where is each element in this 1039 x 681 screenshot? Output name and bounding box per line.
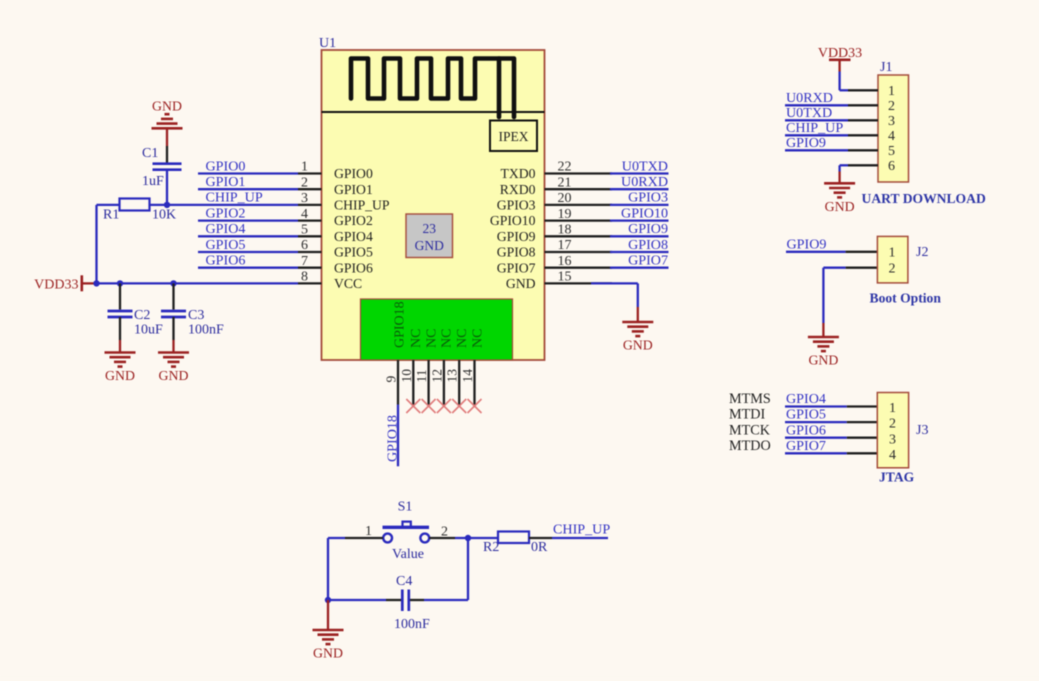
svg-text:3: 3 xyxy=(888,114,895,129)
svg-text:GPIO9: GPIO9 xyxy=(497,229,536,244)
svg-text:VCC: VCC xyxy=(334,276,362,291)
svg-text:C3: C3 xyxy=(188,308,204,323)
wire GPIO2 row xyxy=(198,219,298,221)
svg-text:21: 21 xyxy=(558,175,572,190)
switch S1 xyxy=(383,522,430,543)
C3 bottom lead xyxy=(172,317,174,340)
svg-text:1: 1 xyxy=(889,246,896,261)
svg-text:GPIO6: GPIO6 xyxy=(334,260,373,275)
U1 pin 16 stub xyxy=(545,267,613,269)
svg-text:13: 13 xyxy=(445,369,460,383)
U1 pin 6 stub xyxy=(298,251,322,253)
svg-text:GPIO18: GPIO18 xyxy=(385,415,401,462)
svg-text:4: 4 xyxy=(889,448,896,463)
no-connect X on pin 11 xyxy=(422,399,436,413)
svg-text:10uF: 10uF xyxy=(134,323,163,338)
resistor R2 xyxy=(498,532,529,544)
svg-text:6: 6 xyxy=(888,159,895,174)
svg-text:GPIO5: GPIO5 xyxy=(206,237,246,253)
wire GPIO7 row xyxy=(610,267,669,269)
wire U0TXD row xyxy=(610,172,669,174)
capacitor C4 xyxy=(402,590,409,612)
no-connect X on pin 12 xyxy=(437,399,451,413)
svg-text:J2: J2 xyxy=(916,245,928,260)
J3 pin 4 stub xyxy=(847,452,878,454)
svg-text:8: 8 xyxy=(301,270,308,285)
svg-text:GPIO1: GPIO1 xyxy=(206,174,246,190)
svg-text:C2: C2 xyxy=(134,308,150,323)
U1 pin 14 stub xyxy=(473,360,475,406)
svg-text:GPIO3: GPIO3 xyxy=(497,198,536,213)
svg-text:19: 19 xyxy=(558,207,572,222)
svg-text:7: 7 xyxy=(301,254,308,269)
svg-text:VDD33: VDD33 xyxy=(34,277,78,292)
wire GPIO4 to J3 xyxy=(785,405,847,407)
svg-text:5: 5 xyxy=(888,144,895,159)
wire GPIO10 row xyxy=(610,219,669,221)
wire GPIO0 row xyxy=(198,172,298,174)
svg-text:GPIO7: GPIO7 xyxy=(497,260,536,275)
svg-text:GPIO6: GPIO6 xyxy=(786,422,826,438)
wire VDD33 rail xyxy=(97,282,299,284)
svg-text:CHIP_UP: CHIP_UP xyxy=(553,522,610,538)
svg-text:NC: NC xyxy=(440,329,455,348)
svg-text:R2: R2 xyxy=(483,540,499,555)
svg-text:CHIP_UP: CHIP_UP xyxy=(206,190,263,206)
U1 pin 15 stub xyxy=(545,282,613,284)
no-connect X on pin 14 xyxy=(468,399,482,413)
svg-text:GND: GND xyxy=(105,368,135,383)
svg-text:GPIO9: GPIO9 xyxy=(787,236,827,252)
capacitor C1 xyxy=(153,164,182,170)
J2 pin 1 stub xyxy=(846,251,878,253)
svg-text:3: 3 xyxy=(301,191,308,206)
wire pin15 to ground xyxy=(591,282,638,284)
U1 pin 8 stub xyxy=(298,282,322,284)
svg-text:GND: GND xyxy=(808,353,838,368)
svg-text:GPIO4: GPIO4 xyxy=(786,391,826,407)
svg-text:NC: NC xyxy=(424,329,439,348)
svg-text:GND: GND xyxy=(313,646,343,661)
U1 pin 5 stub xyxy=(298,235,322,237)
svg-text:C4: C4 xyxy=(396,574,412,589)
svg-text:GPIO9: GPIO9 xyxy=(786,135,826,151)
svg-text:GPIO5: GPIO5 xyxy=(334,245,373,260)
U1 pin 18 stub xyxy=(545,235,613,237)
wire J1 pin6 to gnd xyxy=(840,164,848,166)
U1 pin 13 stub xyxy=(458,360,460,406)
svg-text:GPIO8: GPIO8 xyxy=(497,245,536,260)
svg-text:U0TXD: U0TXD xyxy=(786,105,832,121)
svg-text:GPIO10: GPIO10 xyxy=(490,213,536,228)
svg-text:2: 2 xyxy=(301,175,308,190)
C3 top lead xyxy=(172,283,174,309)
capacitor C3 xyxy=(161,311,186,317)
svg-text:GPIO10: GPIO10 xyxy=(621,205,668,221)
svg-text:IPEX: IPEX xyxy=(499,129,529,144)
no-connect X on pin 10 xyxy=(406,399,420,413)
shield/NC green block of U1 xyxy=(361,299,513,360)
J3 pin 3 stub xyxy=(847,437,878,439)
power stub C2 gnd xyxy=(119,340,121,353)
U1 pin 17 stub xyxy=(545,251,613,253)
wire gnd to C1 xyxy=(166,146,168,163)
svg-text:1: 1 xyxy=(889,401,896,416)
C4 right stub xyxy=(410,599,424,601)
junction C3 xyxy=(170,280,176,286)
svg-text:J1: J1 xyxy=(880,60,892,75)
svg-text:NC: NC xyxy=(409,329,424,348)
power stub S1 gnd xyxy=(327,600,329,630)
svg-text:GND: GND xyxy=(152,99,182,114)
J1 pin 4 stub xyxy=(848,134,878,136)
svg-text:9: 9 xyxy=(384,376,399,383)
svg-text:16: 16 xyxy=(558,254,572,269)
antenna feed stub xyxy=(497,59,502,118)
connector J2 body xyxy=(877,236,908,283)
svg-text:GPIO0: GPIO0 xyxy=(334,166,373,181)
wire C4 left xyxy=(328,599,386,601)
svg-text:U0RXD: U0RXD xyxy=(621,174,668,190)
svg-text:RXD0: RXD0 xyxy=(500,182,536,197)
C2 top lead xyxy=(119,283,121,309)
wire GPIO4 row xyxy=(198,235,298,237)
wire pin9 down xyxy=(397,405,399,467)
junction C2 xyxy=(117,280,123,286)
U1 pin 4 stub xyxy=(298,219,322,221)
svg-text:1uF: 1uF xyxy=(142,174,164,189)
svg-text:U0RXD: U0RXD xyxy=(786,90,833,106)
svg-text:17: 17 xyxy=(558,238,572,253)
svg-text:1: 1 xyxy=(301,160,308,175)
S1 pin1 stub xyxy=(345,537,383,539)
svg-text:18: 18 xyxy=(558,223,572,238)
svg-text:GND: GND xyxy=(159,368,189,383)
svg-text:MTDI: MTDI xyxy=(729,407,766,423)
S1 pin2 stub xyxy=(429,537,455,539)
junction C4/gnd xyxy=(325,597,331,603)
svg-text:GND: GND xyxy=(506,276,536,291)
ground above C1 xyxy=(152,99,183,129)
connector J3 body xyxy=(877,393,908,468)
J1 pin 6 stub xyxy=(848,164,878,166)
svg-text:GPIO6: GPIO6 xyxy=(206,253,246,269)
C2 bottom lead xyxy=(119,317,121,340)
svg-text:2: 2 xyxy=(889,262,896,277)
svg-text:0R: 0R xyxy=(531,540,548,555)
svg-text:5: 5 xyxy=(301,223,308,238)
power stub above C1 xyxy=(166,128,168,146)
svg-text:GND: GND xyxy=(825,199,855,214)
svg-text:CHIP_UP: CHIP_UP xyxy=(786,120,843,136)
wire GPIO9 row xyxy=(610,235,669,237)
svg-text:GPIO7: GPIO7 xyxy=(786,438,826,454)
U1 pin 21 stub xyxy=(545,188,613,190)
svg-text:U1: U1 xyxy=(319,36,336,51)
svg-text:TXD0: TXD0 xyxy=(501,166,536,181)
junction VDD33/R1 xyxy=(93,280,99,286)
U1 pin 7 stub xyxy=(298,267,322,269)
svg-text:GPIO7: GPIO7 xyxy=(628,253,668,269)
svg-text:14: 14 xyxy=(460,369,475,383)
svg-text:GPIO2: GPIO2 xyxy=(206,205,246,221)
power stub J1 gnd xyxy=(838,172,840,184)
junction S1/C4 xyxy=(465,535,471,541)
svg-text:2: 2 xyxy=(889,417,896,432)
wire GPIO6 row xyxy=(198,267,298,269)
svg-text:11: 11 xyxy=(414,370,429,383)
svg-text:MTCK: MTCK xyxy=(729,422,771,438)
wire U0RXD to J1 xyxy=(785,104,848,106)
wire S1 to R2 xyxy=(455,537,498,539)
svg-text:GND: GND xyxy=(415,238,444,253)
power port VDD33 at J1 xyxy=(818,46,862,71)
svg-text:MTDO: MTDO xyxy=(729,438,771,454)
wire GPIO8 row xyxy=(610,251,669,253)
IC module U1 body xyxy=(322,50,545,360)
wire GPIO6 to J3 xyxy=(785,437,847,439)
wire GPIO9 to J1 xyxy=(785,149,848,151)
svg-text:GPIO0: GPIO0 xyxy=(206,158,246,174)
svg-text:15: 15 xyxy=(558,270,572,285)
svg-text:R1: R1 xyxy=(103,208,119,223)
wire GPIO5 row xyxy=(198,251,298,253)
svg-text:NC: NC xyxy=(470,329,485,348)
svg-text:GPIO8: GPIO8 xyxy=(628,237,668,253)
svg-text:GPIO9: GPIO9 xyxy=(628,221,668,237)
svg-text:NC: NC xyxy=(455,329,470,348)
R2 right stub xyxy=(529,537,552,539)
U1 pin 19 stub xyxy=(545,219,613,221)
wire GPIO1 row xyxy=(198,188,298,190)
wire R2 to CHIP_UP xyxy=(552,537,608,539)
svg-text:6: 6 xyxy=(301,238,308,253)
svg-text:Value: Value xyxy=(392,547,424,562)
IPEX connector box xyxy=(490,121,537,152)
U1 pin 20 stub xyxy=(545,204,613,206)
wire S1 left branch down xyxy=(327,538,329,600)
svg-text:23: 23 xyxy=(423,221,437,236)
wire C4 right xyxy=(424,599,468,601)
svg-text:20: 20 xyxy=(558,191,572,206)
svg-text:4: 4 xyxy=(888,129,895,144)
wire right branch down xyxy=(467,538,469,600)
J2 pin 2 stub xyxy=(846,267,878,269)
no-connect X on pin 13 xyxy=(452,399,466,413)
antenna divider line xyxy=(322,111,545,113)
U1 pin 11 stub xyxy=(427,360,429,406)
U1 pin 2 stub xyxy=(298,188,322,190)
svg-text:10K: 10K xyxy=(152,208,176,223)
svg-text:3: 3 xyxy=(889,432,896,447)
svg-text:GND: GND xyxy=(623,338,653,353)
svg-text:1: 1 xyxy=(365,524,372,539)
svg-text:S1: S1 xyxy=(398,500,413,515)
svg-text:1: 1 xyxy=(888,84,895,99)
ground below J1 xyxy=(824,183,855,214)
J3 pin 2 stub xyxy=(847,421,878,423)
power port VDD33 left xyxy=(34,275,96,292)
J1 pin 2 stub xyxy=(848,104,878,106)
U1 pin 12 stub xyxy=(443,360,445,406)
svg-text:100nF: 100nF xyxy=(188,323,224,338)
svg-text:GPIO1: GPIO1 xyxy=(334,182,373,197)
antenna meander of U1 xyxy=(351,59,514,118)
svg-text:2: 2 xyxy=(888,99,895,114)
wire VDD33 to J1 pin1 xyxy=(838,72,840,91)
svg-text:J3: J3 xyxy=(916,423,928,438)
junction C1/R1/CHIP_UP xyxy=(164,202,170,208)
U1 pin 22 stub xyxy=(545,172,613,174)
svg-text:GPIO4: GPIO4 xyxy=(334,229,373,244)
svg-text:GPIO18: GPIO18 xyxy=(393,301,408,348)
svg-text:GPIO5: GPIO5 xyxy=(786,407,826,423)
C4 left stub xyxy=(386,599,401,601)
svg-text:CHIP_UP: CHIP_UP xyxy=(334,198,390,213)
ground near U1 pin15 xyxy=(622,322,653,353)
J1 pin 5 stub xyxy=(848,149,878,151)
svg-text:10: 10 xyxy=(399,369,414,383)
wire J2 pin2 to gnd xyxy=(823,267,845,269)
ground below C2 xyxy=(105,353,136,384)
wire U0RXD row xyxy=(610,188,669,190)
svg-text:UART DOWNLOAD: UART DOWNLOAD xyxy=(862,191,986,206)
U1 pin 3 stub xyxy=(298,204,322,206)
wire C1 to node xyxy=(166,170,168,205)
wire GPIO3 row xyxy=(610,204,669,206)
ground below C3 xyxy=(158,353,189,384)
J1 pin 3 stub xyxy=(848,119,878,121)
svg-text:MTMS: MTMS xyxy=(729,391,771,407)
svg-text:GPIO2: GPIO2 xyxy=(334,213,373,228)
wire CHIP_UP row xyxy=(150,204,299,206)
U1 pin 9 stub xyxy=(397,360,399,405)
svg-text:GPIO4: GPIO4 xyxy=(206,221,246,237)
svg-text:22: 22 xyxy=(558,160,572,175)
J1 pin 1 stub xyxy=(848,89,878,91)
ground pad 23 GND box xyxy=(406,214,453,258)
U1 pin 10 stub xyxy=(412,360,414,406)
wire CHIP_UP to J1 xyxy=(785,134,848,136)
svg-text:GPIO3: GPIO3 xyxy=(628,190,668,206)
svg-text:U0TXD: U0TXD xyxy=(622,158,668,174)
svg-text:Boot Option: Boot Option xyxy=(870,291,942,306)
svg-text:100nF: 100nF xyxy=(394,617,430,632)
wire GPIO5 to J3 xyxy=(785,421,847,423)
svg-text:4: 4 xyxy=(301,207,308,222)
svg-text:12: 12 xyxy=(429,369,444,383)
power stub C3 gnd xyxy=(172,340,174,353)
resistor R1 xyxy=(120,199,150,211)
power stub J2 gnd xyxy=(822,323,824,337)
wire left of S1 xyxy=(328,537,345,539)
power stub pin15 gnd xyxy=(637,307,639,322)
wire GPIO9 to J2 xyxy=(786,251,846,253)
ground below J2 xyxy=(808,337,839,368)
wire R1 left leg xyxy=(97,204,120,206)
wire U0TXD to J1 xyxy=(785,119,848,121)
svg-text:C1: C1 xyxy=(142,146,158,161)
capacitor C2 xyxy=(108,311,133,317)
U1 pin 1 stub xyxy=(298,172,322,174)
svg-text:JTAG: JTAG xyxy=(879,470,915,485)
connector J1 body xyxy=(878,75,909,182)
J3 pin 1 stub xyxy=(847,405,878,407)
wire GPIO7 to J3 xyxy=(785,452,847,454)
ground below S1 xyxy=(313,630,344,661)
